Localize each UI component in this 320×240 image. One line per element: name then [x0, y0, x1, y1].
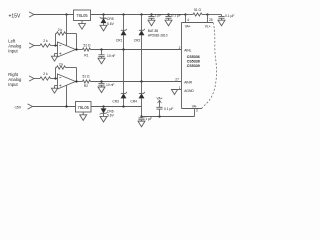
regulator U4 79L05 box	[76, 102, 92, 113]
wire rail to R3	[186, 14, 194, 16]
label 51 ohm top	[194, 8, 202, 12]
pin number 4	[187, 18, 189, 22]
connector +15V	[29, 12, 34, 17]
svg-text:2 k: 2 k	[43, 39, 48, 43]
junction -5V jog corner	[140, 115, 142, 117]
junction C7 on lower rail	[158, 115, 160, 117]
resistor R7 2k feedback	[57, 66, 66, 69]
label CR5	[107, 17, 114, 21]
svg-text:0.1 µF: 0.1 µF	[225, 14, 234, 18]
wire rail to C3	[208, 14, 222, 16]
resistor R4 2k series	[40, 44, 50, 47]
connector left input	[29, 43, 34, 48]
resistor R2 51 ohm	[83, 80, 91, 83]
U3 plus sign	[59, 85, 61, 87]
label 5.6V	[107, 22, 115, 26]
wire -15V to 79L05	[33, 106, 76, 108]
svg-text:2 k: 2 k	[58, 28, 63, 32]
resistor R1 51 ohm	[83, 48, 91, 51]
svg-text:2: 2	[179, 46, 181, 50]
label 2k R5	[58, 28, 63, 32]
wire VA+ pin stub	[185, 15, 187, 23]
junction C2 on +5V rail	[167, 13, 169, 15]
wire AGND to ground	[175, 89, 182, 91]
svg-text:51 Ω: 51 Ω	[194, 8, 202, 12]
wire R2 to AINR	[91, 81, 182, 83]
wire feedback R7 right leg	[66, 68, 77, 82]
svg-text:4: 4	[187, 18, 189, 22]
label R2	[84, 84, 88, 88]
IC U5 bottom edge	[182, 108, 202, 110]
IC name CS5339	[187, 64, 200, 68]
svg-text:AGND: AGND	[184, 89, 194, 93]
capacitor C3 0.1uF	[218, 15, 225, 26]
node +15V input label	[9, 13, 21, 19]
label CR1	[116, 38, 123, 42]
wire R3 to VL+ node	[202, 14, 208, 16]
junction U3 inverting node	[54, 77, 56, 79]
svg-text:HP5082-2810: HP5082-2810	[148, 33, 168, 37]
svg-text:CR5: CR5	[107, 17, 114, 21]
resistor R6 2k series	[40, 77, 50, 80]
capacitor C5 10nF	[98, 82, 105, 93]
svg-text:2 k: 2 k	[43, 72, 48, 76]
junction op-amp U3 V- tap	[65, 105, 67, 107]
label BAT-85	[148, 29, 159, 33]
junction U1 output feedback	[75, 48, 77, 50]
junction U3 output feedback	[75, 80, 77, 82]
op-amp U1	[58, 42, 76, 57]
svg-text:CR2: CR2	[134, 38, 141, 42]
svg-text:51 Ω: 51 Ω	[83, 43, 91, 47]
label 5.6V CR6	[107, 114, 115, 118]
label 2k R4	[43, 39, 48, 43]
wire R6 to op-amp U3	[51, 78, 58, 80]
wire VA- pin stub	[194, 109, 196, 117]
wire +15V to 78L05	[34, 14, 74, 16]
wire U3 output	[76, 81, 83, 83]
wire left input to R4	[34, 45, 40, 47]
junction CR1 to left signal	[122, 48, 124, 50]
label 10 nF right	[106, 83, 114, 87]
capacitor C4 10nF	[98, 50, 105, 64]
diode CR4 clamp	[139, 82, 145, 117]
ground U1 + input	[51, 56, 57, 61]
diode CR1 clamp	[121, 15, 127, 50]
svg-text:Input: Input	[8, 82, 18, 87]
U3 minus sign	[59, 77, 61, 79]
pin number 3	[196, 109, 198, 113]
svg-text:0.1 µF: 0.1 µF	[172, 14, 181, 18]
diode CR3 clamp	[121, 82, 127, 107]
junction CR2 on +5V rail	[140, 13, 142, 15]
junction CR3 on -5V rail	[122, 105, 124, 107]
pin number 1	[179, 86, 181, 90]
U1 minus sign	[59, 45, 61, 47]
junction VL+ stub	[206, 13, 208, 15]
svg-text:3: 3	[196, 109, 198, 113]
ground below 79L05	[80, 112, 87, 120]
pin label VA-	[192, 104, 197, 108]
svg-text:Input: Input	[8, 49, 18, 54]
wire VL+ pin stub	[207, 15, 209, 23]
junction C4 node	[100, 48, 102, 50]
label CR6	[107, 109, 114, 113]
svg-text:+15V: +15V	[9, 13, 21, 19]
label 2k R6	[43, 72, 48, 76]
svg-text:CR1: CR1	[116, 38, 123, 42]
pin number 27	[175, 78, 179, 82]
svg-text:CR4: CR4	[130, 100, 137, 104]
junction C5 node	[100, 80, 102, 82]
wire feedback R5 left leg	[56, 34, 57, 46]
zener CR6	[100, 107, 108, 117]
IC name CS5338	[187, 60, 200, 64]
pin label VA+	[185, 25, 191, 29]
pin number 2	[179, 46, 181, 50]
svg-text:-15V: -15V	[14, 105, 22, 109]
svg-text:0.1 µF: 0.1 µF	[164, 107, 173, 111]
svg-text:CR3: CR3	[112, 100, 119, 104]
svg-text:1 µF: 1 µF	[155, 14, 162, 18]
label CR2	[134, 38, 141, 42]
junction CR5 on +5V rail	[102, 13, 104, 15]
ground below CR6	[100, 116, 107, 122]
svg-text:AINR: AINR	[184, 81, 192, 85]
svg-text:5.6V: 5.6V	[107, 114, 115, 118]
wire op-amp U3 V- supply	[66, 85, 68, 106]
svg-text:VL+: VL+	[205, 25, 211, 29]
svg-text:AINL: AINL	[184, 48, 191, 52]
label 2k R7	[59, 62, 64, 66]
label 0.1 uF right	[225, 14, 234, 18]
op-amp U3	[58, 74, 76, 89]
svg-text:79L05: 79L05	[78, 105, 90, 110]
svg-text:51 Ω: 51 Ω	[82, 75, 90, 79]
svg-text:2 k: 2 k	[59, 62, 64, 66]
svg-text:BAT-85: BAT-85	[148, 29, 159, 33]
capacitor C7 0.1uF	[156, 106, 162, 117]
wire U3 + input to ground	[55, 86, 58, 89]
svg-text:R2: R2	[84, 84, 88, 88]
connector right input	[29, 76, 34, 81]
label R1	[84, 54, 88, 58]
wire R1 to AINL	[91, 49, 182, 51]
junction C1 on +5V rail	[150, 13, 152, 15]
wire U1 + input to ground	[55, 54, 58, 57]
U1 plus sign	[59, 53, 61, 55]
svg-text:VA-: VA-	[192, 104, 197, 108]
svg-text:CS5338: CS5338	[187, 60, 200, 64]
capacitor C2 0.1uF	[165, 15, 172, 26]
zener CR5	[100, 15, 108, 26]
IC U5 top edge	[182, 22, 214, 24]
svg-text:5.6V: 5.6V	[107, 22, 115, 26]
label CR3	[112, 100, 119, 104]
node Right Analog Input label	[8, 72, 22, 87]
junction CR2 to right signal	[140, 80, 142, 82]
label 1 uF	[155, 14, 162, 18]
svg-text:10 nF: 10 nF	[106, 83, 114, 87]
capacitor C6 1uF	[138, 117, 145, 127]
junction CR6 on -5V rail	[102, 105, 104, 107]
node -15V input label	[14, 105, 22, 109]
wire U1 output	[76, 49, 83, 51]
label 10 nF left	[107, 54, 115, 58]
wire R4 to op-amp U1	[51, 45, 58, 47]
wire feedback R7 left leg	[56, 68, 57, 79]
svg-text:VA+: VA+	[185, 25, 191, 29]
node Left Analog Input label	[8, 39, 22, 54]
resistor R5 2k feedback	[57, 32, 66, 35]
IC name CS5336	[187, 55, 200, 59]
label HP5082-2810	[148, 33, 168, 37]
diode CR2 clamp	[139, 15, 145, 82]
label 0.1 uF VA	[164, 107, 173, 111]
svg-text:CS5336: CS5336	[187, 55, 200, 59]
ground below 78L05	[79, 21, 86, 30]
pin label VL+	[205, 25, 211, 29]
label 51 ohm R1	[83, 43, 91, 47]
connector -15V	[28, 104, 33, 109]
pin label AGND	[184, 89, 194, 93]
ground AGND	[171, 90, 177, 95]
wire right input to R6	[34, 78, 40, 80]
label 51 ohm R2	[82, 75, 90, 79]
svg-text:10 nF: 10 nF	[107, 54, 115, 58]
junction CR1 on +5V rail	[122, 13, 124, 15]
junction U1 inverting node	[54, 44, 56, 46]
pin label AINL	[184, 48, 191, 52]
svg-text:R1: R1	[84, 54, 88, 58]
wire +5V rail	[91, 14, 186, 16]
wire -5V rail	[91, 106, 142, 108]
svg-text:25: 25	[209, 18, 213, 22]
IC U5 dashed break edge	[202, 23, 217, 109]
ground below CR5	[100, 25, 107, 31]
label 0.1 uF	[172, 14, 181, 18]
capacitor C1 1uF	[148, 15, 155, 26]
regulator U2 78L05 box	[74, 10, 91, 21]
wire op-amp U1 V+ supply	[66, 15, 68, 46]
resistor R3 51 ohm	[193, 13, 202, 16]
wire feedback R5 right leg	[66, 34, 77, 50]
svg-text:1 µF: 1 µF	[145, 117, 152, 121]
svg-text:CS5339: CS5339	[187, 64, 200, 68]
ground U3 + input	[51, 88, 57, 93]
IC U5 left edge	[181, 23, 183, 109]
label 1 uF bottom	[145, 117, 152, 121]
junction VA+ stub	[184, 13, 186, 15]
svg-text:27: 27	[175, 78, 179, 82]
wire CR1 line continues to CR3	[123, 50, 125, 82]
pin number 25	[209, 18, 213, 22]
junction op-amp U1 V+ tap	[65, 13, 67, 15]
svg-text:78L05: 78L05	[76, 13, 88, 18]
wire -5V lower rail	[142, 116, 195, 118]
net tag VA+	[157, 96, 163, 106]
label CR4	[130, 100, 137, 104]
pin label AINR	[184, 81, 192, 85]
